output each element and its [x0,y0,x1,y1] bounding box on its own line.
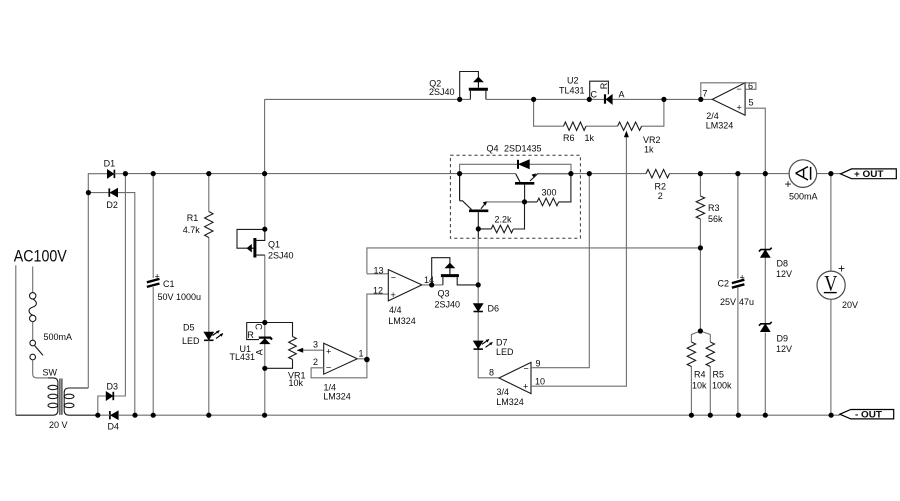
svg-text:+: + [155,272,160,282]
svg-text:TL431: TL431 [230,352,256,362]
svg-text:2SD1435: 2SD1435 [504,144,542,154]
svg-text:R6: R6 [563,133,575,143]
op-amp U3A 1/4 LM324 [313,340,364,402]
svg-text:500mA: 500mA [44,332,73,342]
svg-text:D9: D9 [777,334,789,344]
terminal -OUT [840,410,894,421]
transistor Q2 2SJ40 [429,72,488,100]
junction dots misc nodes [86,190,703,371]
wire feedback line (divider tap to pin 13) [367,248,701,274]
ammeter A 500mA [785,160,818,202]
diode D4 (on bottom rail) [108,411,120,432]
potentiometer VR2 1k [618,122,661,155]
diode D2 [106,188,118,210]
svg-text:12V: 12V [776,344,792,354]
svg-text:8: 8 [489,368,494,378]
svg-text:5: 5 [749,98,754,108]
svg-text:LED: LED [182,336,200,346]
wire fuse to switch [32,322,34,341]
svg-text:2SJ40: 2SJ40 [268,251,294,261]
svg-text:R: R [247,330,254,340]
zener D8 12V [759,174,792,324]
svg-text:D4: D4 [108,422,120,432]
resistor R3 56k [696,174,723,331]
transistor Q4 driver [460,174,525,239]
svg-text:50V 1000u: 50V 1000u [158,292,202,302]
svg-text:D5: D5 [183,323,195,333]
svg-text:R2: R2 [655,182,667,192]
svg-text:LM324: LM324 [706,120,734,130]
wire 1/4 pin2 feedback box [311,360,367,378]
terminal +OUT [841,169,897,180]
svg-text:Q1: Q1 [268,240,280,250]
transformer T1 primary [16,378,58,415]
wire 4/4 pin13 [367,273,388,275]
svg-text:LM324: LM324 [496,397,524,407]
wire R6/VR2 branch [534,99,664,126]
svg-text:3: 3 [313,340,318,350]
svg-text:9: 9 [536,359,541,369]
svg-text:LED: LED [496,347,514,357]
wire top rail [265,98,713,100]
svg-text:D7: D7 [496,338,508,348]
wire 4/4 output (pin 14) [422,284,443,286]
svg-text:2.2k: 2.2k [495,215,513,225]
wire Q4 internal diode branch [460,164,571,173]
svg-text:2: 2 [658,191,663,201]
svg-text:C: C [591,89,598,99]
svg-text:SW: SW [43,368,58,378]
svg-text:U2: U2 [567,76,579,86]
wire second rail (unregulated + output rail) [125,173,840,175]
wire 3/4 pin9 to output rail [531,174,589,368]
capacitor C1 50V 1000u [147,174,201,416]
svg-text:Q3: Q3 [438,289,450,299]
shunt regulator U2 TL431 [559,76,625,105]
svg-text:1k: 1k [585,133,595,143]
diode D3 [106,382,118,401]
junction dots second rail [123,171,834,176]
svg-text:R3: R3 [708,203,720,213]
op-amp U3B 2/4 LM324 (mirrored) [703,81,754,130]
voltmeter V 20V [817,262,858,311]
resistor 300 (B2-E2) [525,174,571,206]
svg-text:D1: D1 [104,159,116,169]
shunt regulator U1 TL431 [230,323,273,363]
capacitor C2 25V 47u [718,174,755,416]
resistor R6 1k [563,122,595,143]
svg-text:LM324: LM324 [323,392,351,402]
svg-text:100k: 100k [712,381,732,391]
diode D6 [474,304,500,314]
wire voltmeter branch [830,174,832,416]
transformer T1 core [60,379,62,415]
svg-text:+: + [785,177,792,191]
svg-text:C2: C2 [718,279,730,289]
svg-text:R5: R5 [713,370,725,380]
svg-text:D3: D3 [107,382,119,392]
LED D7 [474,338,515,358]
svg-text:500mA: 500mA [789,191,818,201]
svg-text:4.7k: 4.7k [183,225,201,235]
svg-text:C1: C1 [163,279,175,289]
svg-text:A: A [255,349,265,355]
wire 3/4 pin10 to VR2 wiper [531,134,626,387]
wire main regulator line x=264.8 [264,174,266,416]
zener D9 12V [759,322,792,415]
svg-text:2: 2 [313,357,318,367]
svg-text:+: + [737,103,742,113]
svg-text:4/4: 4/4 [389,305,402,315]
transistor Q3 2SJ40 [432,258,479,310]
svg-text:R4: R4 [694,370,706,380]
wire D3 branch [98,174,126,416]
LED D5 [182,323,223,416]
potentiometer VR1 10k [265,323,324,388]
resistor R2 2 (current sense, in series) [646,169,670,201]
svg-text:12: 12 [373,286,383,296]
wire 2/4 pin6 feedback loop [701,83,756,100]
svg-text:25V: 25V [720,297,736,307]
svg-text:56k: 56k [708,214,723,224]
svg-text:−: − [326,363,331,373]
diode Q4 internal (reverse protection) [518,160,529,169]
resistor R4 10k [687,331,707,415]
svg-text:7: 7 [703,89,708,99]
svg-text:LM324: LM324 [388,316,416,326]
wire bottom rail (0V) [98,414,840,416]
transistor Q4 output (collector/emitter/base) [515,173,571,202]
junction dots bottom rail [95,413,834,418]
svg-text:TL431: TL431 [559,86,585,96]
resistor R1 4.7k [183,174,213,333]
wire Q3 drain / D6 line [478,238,499,377]
wire 1/4 output to 4/4 pin12 [357,294,388,359]
wire 2/4 pin5 to output sense [745,108,765,173]
svg-text:+: + [326,347,331,357]
svg-text:12V: 12V [776,269,792,279]
svg-text:−: − [391,273,396,283]
diode D1 [104,159,126,179]
svg-text:VR2: VR2 [643,135,661,145]
svg-text:1k: 1k [644,145,654,155]
svg-text:+: + [391,290,396,300]
svg-text:10: 10 [535,377,545,387]
transistor Q1 2SJ40 [237,229,294,260]
svg-text:Q4: Q4 [487,144,499,154]
svg-text:10k: 10k [289,378,304,388]
svg-text:300: 300 [542,188,557,198]
svg-text:AC100V: AC100V [14,248,67,266]
svg-text:+: + [740,273,745,283]
svg-text:D6: D6 [488,304,500,314]
svg-text:3/4: 3/4 [497,387,510,397]
wire switch to transformer [33,360,48,378]
svg-text:−: − [524,364,529,374]
svg-text:D8: D8 [777,259,789,269]
svg-text:2SJ40: 2SJ40 [435,299,461,309]
wire D2 row [88,193,134,416]
svg-text:A: A [619,89,625,99]
svg-text:2SJ40: 2SJ40 [429,87,455,97]
op-amp U3D 4/4 LM324 [373,265,434,326]
transformer T1 secondary [64,388,98,415]
svg-text:C: C [253,323,263,330]
svg-text:+: + [838,262,845,276]
svg-text:20V: 20V [842,300,858,310]
wire riser second rail to top rail [264,99,266,173]
svg-text:20 V: 20 V [49,420,68,430]
svg-text:R1: R1 [187,213,199,223]
svg-text:R: R [599,82,609,89]
svg-text:+: + [523,382,528,392]
resistor R5 100k [700,331,732,415]
fuse F1 500mA [29,293,36,322]
darlington Q4 2SD1435 dashed box [450,155,580,238]
svg-text:47u: 47u [739,297,754,307]
op-amp U3C 3/4 LM324 (mirrored) [489,359,545,408]
svg-text:13: 13 [374,265,384,275]
svg-text:1: 1 [359,349,364,359]
junction dots top rail [457,97,703,102]
resistor 2.2k (B1-E1) [478,202,524,233]
svg-text:10k: 10k [692,381,707,391]
wire AC line right (to fuse) [32,267,34,293]
svg-text:+ OUT: + OUT [854,169,884,180]
wire secondary top to bridge [88,174,107,388]
svg-text:D2: D2 [106,200,118,210]
switch SW [30,340,43,360]
svg-text:−: − [737,84,742,94]
svg-text:- OUT: - OUT [855,410,882,421]
wire AC line left [15,265,17,415]
